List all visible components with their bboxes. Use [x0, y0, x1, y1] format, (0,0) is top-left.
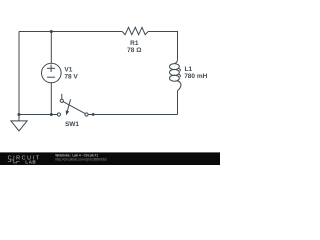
inductor L1 [170, 60, 181, 91]
wire right [177, 91, 179, 115]
node dot bottom (V1) [50, 113, 53, 116]
svg-text:Webrivka : Lab 4 - Circuit #1: Webrivka : Lab 4 - Circuit #1 [55, 153, 98, 157]
node dot top (V1/R1) [50, 30, 53, 33]
switch arrow head [66, 110, 70, 115]
svg-text:V1: V1 [64, 66, 72, 73]
wire top [19, 31, 122, 33]
wire bottom-right [88, 114, 177, 116]
svg-text:http://circuitlab.com/c/p/b289: http://circuitlab.com/c/p/b2896hb63 [55, 158, 106, 162]
wire bottom-left [19, 114, 57, 116]
footer banner [0, 152, 220, 165]
svg-text:78 V: 78 V [64, 74, 78, 81]
svg-text:R1: R1 [130, 40, 139, 47]
svg-text:LAB: LAB [25, 159, 36, 164]
svg-text:L1: L1 [185, 66, 193, 73]
ground [11, 115, 27, 131]
switch SW1 [57, 94, 88, 116]
svg-text:SW1: SW1 [65, 121, 79, 128]
labels [64, 40, 207, 128]
node dot switch-right [92, 113, 95, 116]
footer logo waveform [8, 160, 20, 163]
resistor R1 [122, 27, 148, 34]
wire top-right [148, 32, 177, 60]
wire left [18, 32, 20, 115]
svg-text:78 Ω: 78 Ω [127, 47, 141, 54]
node dot ground [17, 113, 20, 116]
svg-text:780 mH: 780 mH [184, 73, 207, 80]
voltage source V1 [42, 32, 62, 115]
